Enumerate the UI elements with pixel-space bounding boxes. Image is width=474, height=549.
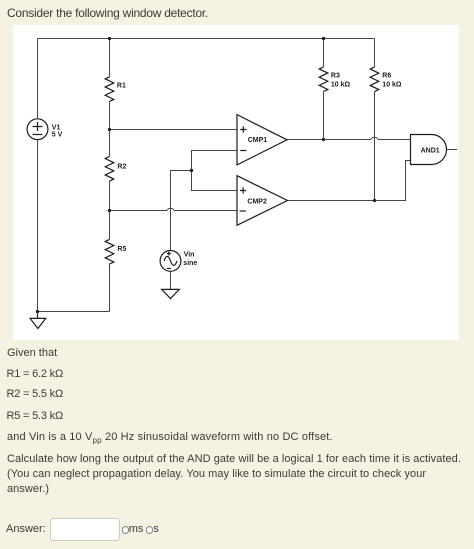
svg-text:CMP1: CMP1: [248, 137, 268, 144]
wire node B to CMP2 minus input with hop gap: [110, 210, 238, 212]
wire R5 bottom stub: [109, 264, 111, 312]
wire junction to CMP1 minus input: [192, 151, 238, 171]
node B R2/R5 junction: [108, 209, 111, 212]
voltage source V1: [27, 119, 48, 140]
svg-text:sine: sine: [183, 260, 197, 267]
label V1: [52, 124, 63, 138]
wire Vin bottom to ground: [170, 271, 172, 289]
wire R1 top stub: [109, 39, 111, 77]
wire V1 bottom to ground corner: [37, 140, 39, 312]
wire R6 top stub: [374, 39, 376, 68]
white schematic panel: [13, 25, 459, 340]
voltage source Vin sine: [160, 251, 181, 272]
question title: [7, 6, 208, 21]
wire node A to CMP1 plus input: [110, 129, 238, 131]
wire top rail: [38, 38, 375, 40]
wire left vertical to V1: [37, 39, 39, 119]
label R6 value 10 kΩ: [382, 72, 402, 88]
svg-text:AND1: AND1: [421, 147, 440, 154]
wire bottom return to R5: [38, 311, 110, 313]
wire junction to CMP2 plus input: [192, 171, 238, 191]
svg-text:CMP2: CMP2: [247, 198, 267, 205]
op-amp CMP1: [237, 115, 287, 165]
wire R5 top stub: [109, 211, 111, 240]
label CMP1: [248, 137, 268, 144]
op-amp CMP2: [237, 176, 288, 226]
svg-text:10 kΩ: 10 kΩ: [382, 82, 402, 89]
svg-text:Vin: Vin: [184, 252, 195, 259]
resistor R3: [319, 67, 328, 92]
wire hop over Vin line: [167, 208, 174, 210]
wire Vin top to junction: [171, 171, 192, 251]
label Vin sine: [183, 252, 197, 268]
svg-text:R5: R5: [117, 246, 126, 253]
node ground corner: [36, 310, 39, 313]
label R1: [117, 83, 126, 90]
resistor R1: [105, 77, 114, 102]
answer row: [6, 522, 46, 537]
svg-text:R2: R2: [117, 164, 126, 171]
given that text: [7, 346, 57, 361]
node R3/CMP1 output: [322, 138, 325, 141]
wire R3 top stub: [323, 39, 325, 67]
wire hop over R6 line: [371, 137, 378, 139]
label R2: [117, 164, 126, 171]
label R3 value 10 kΩ: [331, 72, 351, 88]
svg-text:R6: R6: [382, 72, 391, 79]
label AND1: [421, 147, 440, 154]
resistor R6: [370, 67, 379, 92]
ground (bottom left): [30, 312, 46, 329]
svg-text:R3: R3: [331, 72, 340, 79]
wire R1 bottom stub: [109, 101, 111, 129]
svg-text:5 V: 5 V: [52, 132, 63, 139]
wire R2 bottom stub: [109, 181, 111, 210]
svg-text:10 kΩ: 10 kΩ: [331, 82, 351, 89]
node R6/CMP2 output: [373, 199, 376, 202]
label CMP2: [247, 198, 267, 205]
wire R6 bottom stub: [374, 92, 376, 201]
svg-text:R1: R1: [117, 83, 126, 90]
node A R1/R2 junction: [108, 128, 111, 131]
wire R2 top stub: [109, 130, 111, 157]
node dot top of R1: [108, 37, 111, 40]
ground (below Vin): [162, 289, 180, 298]
wire AND1 output: [447, 149, 457, 151]
svg-text:V1: V1: [52, 124, 61, 131]
wire CMP1 output to AND1 with hop gap: [287, 139, 411, 141]
label R5: [117, 246, 126, 253]
node dot top of R3: [322, 37, 325, 40]
AND gate AND1: [411, 135, 447, 165]
resistor R2: [105, 157, 114, 182]
node Vin junction: [190, 169, 193, 172]
wire CMP2 output to AND1 lower input: [288, 161, 411, 201]
resistor R5: [105, 239, 114, 264]
wire R3 bottom stub: [323, 92, 325, 140]
